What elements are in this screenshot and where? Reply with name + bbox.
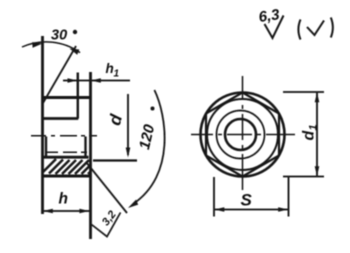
d1 ext bottom xyxy=(283,176,324,178)
washer-face inner vertical xyxy=(77,73,79,119)
bottom edge of nut xyxy=(43,175,92,178)
S dim line xyxy=(214,209,289,211)
left face / extension line xyxy=(41,36,44,214)
outer circle (d1 / across corners) xyxy=(201,93,285,177)
h left arrow xyxy=(43,209,53,214)
svg-text:h: h xyxy=(59,191,68,208)
svg-text:30: 30 xyxy=(51,28,67,44)
30 deg dimension arc xyxy=(22,42,80,53)
svg-text:S: S xyxy=(241,191,253,210)
120 deg arc xyxy=(133,90,165,204)
centerline vertical xyxy=(242,76,244,190)
thread circle xyxy=(217,111,265,159)
svg-text:1: 1 xyxy=(308,124,320,130)
svg-text:1: 1 xyxy=(114,69,120,80)
hole circle xyxy=(225,119,256,150)
chamfer circle xyxy=(207,99,278,170)
label d1 xyxy=(301,124,320,140)
right face of nut xyxy=(89,72,92,239)
120 deg lower extension line xyxy=(86,162,127,213)
top edge of nut xyxy=(42,96,92,99)
centerline horizontal xyxy=(191,134,295,136)
hexagon xyxy=(206,93,279,177)
h1 tick left xyxy=(77,73,79,90)
d1 ext top xyxy=(283,91,324,93)
centerline xyxy=(31,135,97,137)
S dim ext right xyxy=(288,177,290,217)
parenthesis right xyxy=(331,18,333,38)
roughness mark 3,2 xyxy=(92,213,121,237)
thread line (thin, broken) xyxy=(46,151,87,153)
S dim ext left xyxy=(213,177,215,217)
svg-text:6,3: 6,3 xyxy=(258,6,282,26)
h1 right arrow xyxy=(91,78,101,83)
hole lower vertical left xyxy=(45,137,47,158)
h right arrow xyxy=(79,209,89,214)
120 arc arrow xyxy=(128,200,138,208)
hole lower vertical right xyxy=(84,137,86,158)
30 arc left arrow xyxy=(32,42,42,48)
hole bottom edge (thick) xyxy=(44,156,89,159)
30 arc right arrow xyxy=(70,49,80,55)
svg-text:h: h xyxy=(106,61,114,76)
h dimension line xyxy=(43,210,90,212)
hole upper line xyxy=(43,117,79,120)
h1 dimension line xyxy=(63,80,130,82)
d dimension line xyxy=(127,94,129,155)
d arrow down xyxy=(126,148,131,158)
chamfer 30 deg line xyxy=(43,46,76,103)
d extension line xyxy=(93,159,137,161)
d1 dim line xyxy=(316,92,318,177)
parenthesis left xyxy=(298,20,300,40)
hatch band xyxy=(43,159,91,174)
small check xyxy=(307,21,324,36)
h1 left arrow xyxy=(68,78,78,83)
